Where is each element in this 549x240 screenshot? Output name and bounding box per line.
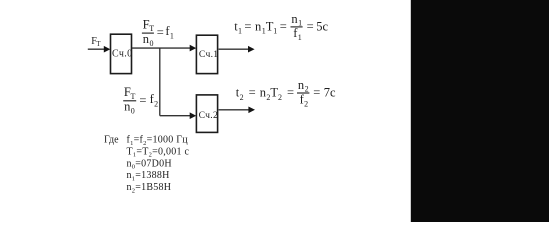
black scanner band (right side)	[411, 0, 549, 222]
wire Сч.0 to Сч.1	[132, 45, 196, 52]
formula t2 = n2T2 = n2/f2 = 7c	[236, 78, 336, 109]
output arrow of Сч.1	[219, 46, 255, 53]
svg-text:Т: Т	[96, 40, 101, 48]
formula F_T / n_0 = f_2 (below Сч.0)	[123, 85, 158, 115]
svg-text:=: =	[157, 26, 164, 40]
svg-text:=: =	[249, 86, 256, 100]
counter block Сч.0	[111, 34, 133, 73]
svg-text:T1=T2=0,001 с: T1=T2=0,001 с	[127, 146, 190, 158]
svg-text:=: =	[287, 86, 294, 100]
wire branch to Сч.2	[160, 112, 196, 119]
svg-text:2: 2	[278, 93, 282, 102]
svg-text:1: 1	[238, 27, 242, 36]
svg-text:2: 2	[304, 99, 308, 108]
svg-text:7с: 7с	[324, 85, 336, 99]
svg-text:1: 1	[298, 18, 302, 27]
formula F_T / n_0 = f_1 (above wire to Сч.1)	[142, 18, 174, 48]
output arrow of Сч.2	[219, 107, 255, 114]
svg-text:=: =	[307, 19, 314, 33]
svg-text:Сч.2: Сч.2	[199, 110, 219, 121]
svg-text:0: 0	[150, 39, 154, 48]
svg-text:0: 0	[131, 107, 135, 116]
vertical branch wire	[159, 48, 161, 116]
counter block Сч.1	[196, 35, 218, 73]
formula t1 = n1T1 = n1/f1 = 5c	[234, 12, 328, 42]
label F_T (input frequency)	[91, 36, 101, 48]
svg-text:2: 2	[305, 84, 309, 93]
svg-text:1: 1	[273, 27, 277, 36]
counter block Сч.2	[196, 95, 218, 132]
svg-text:=: =	[313, 85, 320, 99]
input wire with arrow into Сч.0	[88, 46, 111, 53]
svg-text:Где: Где	[104, 135, 119, 146]
svg-text:=: =	[244, 20, 251, 34]
svg-text:1: 1	[170, 31, 174, 40]
svg-text:=: =	[139, 93, 146, 107]
svg-text:f1=f2=1000 Гц: f1=f2=1000 Гц	[127, 135, 189, 147]
svg-text:2: 2	[154, 100, 158, 109]
svg-text:Сч.0: Сч.0	[112, 48, 132, 59]
svg-text:Т: Т	[131, 92, 136, 101]
svg-text:Т: Т	[149, 24, 154, 33]
svg-text:2: 2	[240, 93, 244, 102]
svg-text:5с: 5с	[316, 19, 328, 33]
svg-text:=: =	[280, 20, 287, 34]
svg-text:Сч.1: Сч.1	[199, 49, 219, 60]
svg-text:1: 1	[298, 33, 302, 42]
